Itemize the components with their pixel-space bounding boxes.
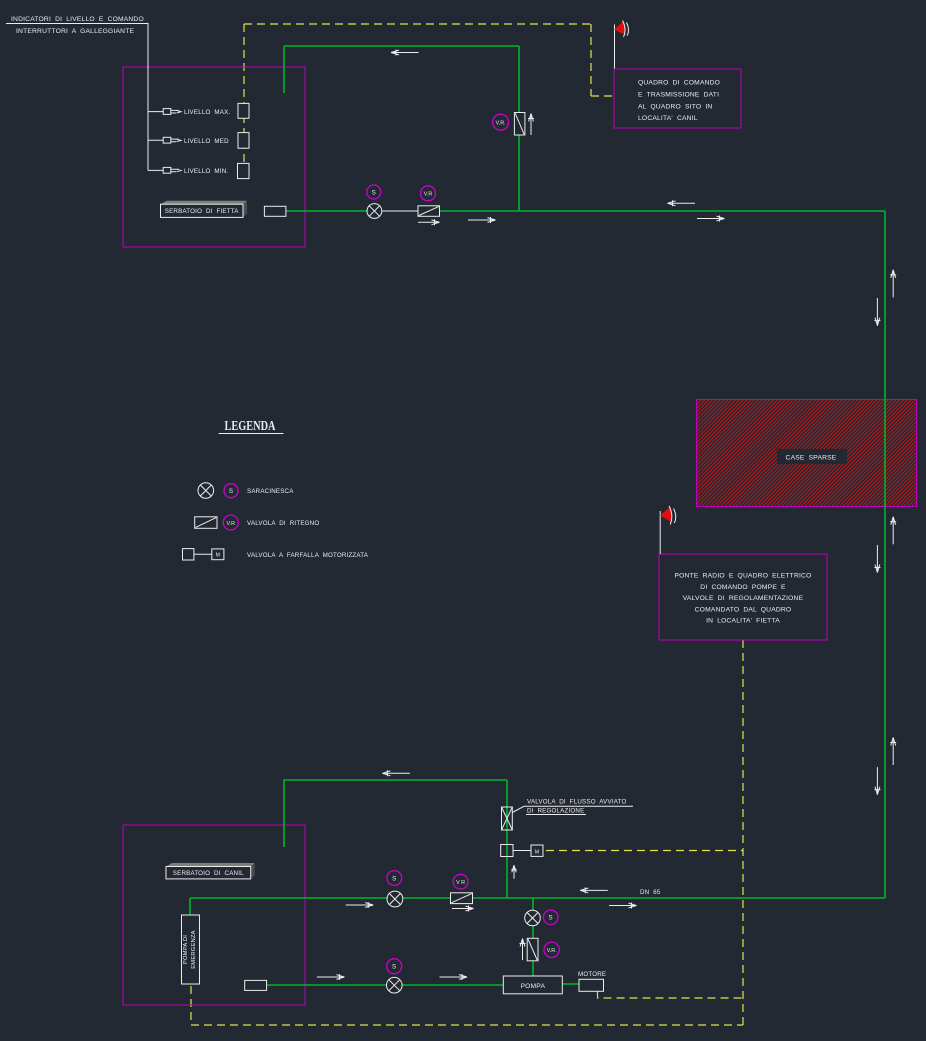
svg-text:SARACINESCA: SARACINESCA: [247, 488, 294, 495]
flow arrows on right vertical pair 1 down: [874, 298, 880, 326]
motor MOTORE box: [579, 979, 604, 991]
valve saracinesca V1 (upper main): [367, 204, 382, 219]
flow arrow up on riser below butterfly: [511, 865, 517, 879]
tag S for V2: [387, 871, 402, 886]
svg-text:POMPA DI: POMPA DI: [183, 935, 189, 964]
butterfly valve body square: [501, 845, 513, 857]
check valve V.R. VR1 (upper main): [418, 206, 440, 217]
wire: vertical dashed through level switches x=244: [243, 24, 245, 164]
flow arrow pair on upper main near right (right): [697, 216, 725, 222]
svg-text:IN LOCALITA' FIETTA: IN LOCALITA' FIETTA: [706, 617, 780, 624]
svg-text:V R: V R: [456, 880, 465, 886]
svg-text:S: S: [549, 915, 553, 922]
flow arrow right of DN65 pointing right: [609, 903, 637, 909]
float switch med symbol: [163, 137, 181, 143]
wire: dashed branch to MOTORE y=998: [598, 991, 744, 998]
pipe: canil loop top y=780: [284, 780, 507, 847]
svg-text:COMANDATO DAL QUADRO: COMANDATO DAL QUADRO: [695, 606, 792, 613]
inlet flange rect (Canil suction): [245, 980, 267, 990]
underline for line2: [526, 814, 586, 816]
svg-text:LIVELLO MIN.: LIVELLO MIN.: [184, 168, 228, 175]
flow arrow on top run y=46 pointing left: [391, 50, 419, 56]
tag V.R for VR3: [453, 874, 468, 889]
wire: dashed branch to motorized valve y=850: [546, 850, 743, 852]
label SERBATOIO DI CANIL 3D tag: [166, 863, 255, 879]
antenna A1 radiator: [615, 21, 629, 38]
valve saracinesca V2 (lower main): [387, 891, 403, 907]
pipe: main upper run y=211 (left of gate valve): [286, 210, 368, 212]
tag S for V3: [543, 910, 558, 925]
check valve VR3 (lower main): [451, 893, 473, 904]
pipe: branch to pump x=533: [532, 898, 534, 976]
tag V.R. for VR4: [544, 942, 559, 957]
svg-text:VALVOLA DI RITEGNO: VALVOLA DI RITEGNO: [247, 520, 319, 527]
float switch min symbol: [163, 167, 181, 173]
panel box: ponte radio e quadro elettrico: [659, 554, 827, 640]
svg-text:INTERRUTTORI A GALLEGGIANTE: INTERRUTTORI A GALLEGGIANTE: [16, 28, 134, 35]
pipe: tank Fietta inlet drop: [283, 46, 285, 93]
flow arrows on right vertical pair 3 up: [890, 738, 896, 766]
flow arrows on right vertical pair 2 down: [874, 545, 880, 573]
svg-text:V.R: V.R: [424, 192, 433, 198]
legend tag S: [224, 484, 238, 498]
svg-text:MOTORE: MOTORE: [578, 971, 606, 978]
svg-text:DI COMANDO POMPE E: DI COMANDO POMPE E: [700, 584, 786, 591]
valve saracinesca V4 (suction): [387, 977, 403, 993]
check valve V.R. VR2 (riser x=519): [514, 113, 525, 136]
svg-text:INDICATORI DI LIVELLO E CO: INDICATORI DI LIVELLO E COMANDO: [11, 16, 144, 23]
level sense wire: underline+drop+stubs: [6, 24, 163, 171]
pipe: riser x=519 from top run to main: [518, 46, 520, 211]
flow arrow up beside VR2: [528, 114, 534, 136]
flow arrow pair on upper main near right (left): [668, 200, 696, 206]
check valve VR4 vertical (pump branch): [527, 938, 538, 961]
svg-text:DI REGOLAZIONE: DI REGOLAZIONE: [527, 808, 584, 815]
pipe: pump to motor link: [562, 983, 580, 985]
pipe: emergency pump riser: [189, 898, 191, 915]
motor actuator M box: [531, 845, 543, 856]
svg-text:V.R.: V.R.: [496, 121, 506, 127]
svg-text:PONTE RADIO E QUADRO ELETT: PONTE RADIO E QUADRO ELETTRICO: [675, 573, 812, 580]
svg-text:M: M: [535, 849, 539, 855]
flow arrow on suction run 1: [317, 974, 345, 980]
wire: dashed drop from pompa di emergenza: [190, 986, 192, 1025]
antenna A2 radiator: [661, 506, 676, 525]
float switch max symbol: [163, 109, 181, 115]
svg-text:SERBATOIO DI CANIL: SERBATOIO DI CANIL: [173, 870, 244, 877]
svg-text:VALVOLA A FARFALLA MOTORIZZ: VALVOLA A FARFALLA MOTORIZZATA: [247, 552, 369, 559]
tank serbatoio di Fietta boundary: [123, 67, 305, 247]
flow arrow up beside VR4: [520, 939, 526, 961]
tag V.R for VR1: [421, 186, 436, 201]
svg-text:VALVOLA DI FLUSSO AVVIATO: VALVOLA DI FLUSSO AVVIATO: [527, 799, 627, 806]
svg-text:S: S: [392, 875, 396, 882]
svg-text:LIVELLO MED: LIVELLO MED: [184, 138, 229, 145]
svg-text:LIVELLO MAX.: LIVELLO MAX.: [184, 109, 230, 116]
svg-text:AL QUADRO SITO IN: AL QUADRO SITO IN: [638, 103, 712, 110]
label SERBATOIO DI FIETTA 3D tag: [161, 201, 248, 218]
legend symbol: valvola di ritegno: [195, 517, 217, 529]
svg-text:CASE SPARSE: CASE SPARSE: [786, 455, 837, 462]
svg-text:E TRASMISSIONE DATI: E TRASMISSIONE DATI: [638, 92, 719, 99]
svg-text:EMERGENZA: EMERGENZA: [191, 930, 197, 969]
pipe: lower main run y=898 (DN 65): [190, 897, 885, 899]
level contact box max: [238, 103, 249, 118]
inlet flange rect (Fietta outlet): [264, 206, 286, 216]
antenna A1 mast (top right): [614, 25, 616, 69]
flow arrow under VR3: [452, 906, 474, 912]
svg-text:SERBATOIO DI FIETTA: SERBATOIO DI FIETTA: [165, 208, 239, 215]
level contact box min: [238, 163, 250, 178]
antenna A2 mast (ponte radio): [659, 511, 661, 554]
tag S for V1: [367, 185, 381, 199]
flow arrow under VR1: [418, 219, 440, 225]
level contact box med: [238, 133, 249, 149]
svg-text:LEGENDA: LEGENDA: [225, 418, 276, 433]
svg-text:V.R.: V.R.: [547, 948, 557, 954]
valve saracinesca V3 (pump branch): [525, 910, 541, 926]
svg-text:S: S: [229, 488, 233, 495]
svg-text:LOCALITA' CANIL: LOCALITA' CANIL: [638, 115, 698, 122]
svg-text:S: S: [392, 964, 396, 971]
tag V.R. for VR2: [493, 114, 509, 130]
svg-text:V.R: V.R: [227, 521, 236, 527]
flow arrows on right vertical pair 2 up: [890, 517, 896, 545]
svg-text:M: M: [216, 553, 220, 559]
flow arrow on main right of VR1: [468, 217, 496, 223]
legend title underline: [219, 433, 284, 435]
zone: CASE SPARSE hatched area: [697, 400, 917, 507]
wire: dashed vertical x=591: [590, 24, 592, 96]
text ponte radio box: [675, 573, 812, 625]
panel box: quadro di comando (top right): [614, 69, 741, 128]
svg-text:VALVOLE DI REGOLAMENTAZIONE: VALVOLE DI REGOLAMENTAZIONE: [683, 595, 804, 602]
svg-text:DN 65: DN 65: [640, 889, 661, 896]
legend tag V.R: [223, 515, 238, 530]
pipe: regolazione riser x=507: [506, 780, 508, 898]
flow arrows on right vertical pair 3 down: [874, 767, 880, 795]
tag S for V4: [387, 959, 402, 974]
pipe: main upper run y=211 (right of check valve): [439, 210, 885, 212]
leader line for valvola di flusso label: [512, 806, 633, 812]
text quadro di comando box: [638, 80, 720, 123]
flow arrow left of DN65 pointing left: [580, 887, 608, 893]
flow arrow on suction run 2: [440, 974, 468, 980]
wire: white pipe segment between valves y=211: [381, 210, 419, 212]
wire: dashed bottom run y=1025: [191, 1024, 743, 1026]
svg-text:QUADRO DI COMANDO: QUADRO DI COMANDO: [638, 80, 720, 87]
flow arrow on canil loop top pointing left: [382, 770, 410, 776]
tank serbatoio di Canil boundary: [123, 825, 305, 1005]
legend symbol: farfalla motorizzata: [183, 549, 224, 560]
svg-text:S: S: [372, 189, 376, 196]
legend symbol: saracinesca circle-X: [198, 483, 214, 499]
wire: dashed stub into quadro box: [591, 95, 614, 97]
svg-text:POMPA: POMPA: [520, 983, 545, 990]
flow arrows on right vertical pair 1 up: [890, 270, 896, 298]
pump POMPA box: [503, 976, 562, 994]
actuator link: [513, 850, 531, 852]
valve regolazione X-body (riser x=507): [502, 807, 513, 830]
pipe: right vertical main x=885: [884, 211, 886, 898]
flow arrow on lower main left section: [346, 902, 374, 908]
pipe: bottom suction run y=985: [266, 984, 503, 986]
wire: dashed horizontal y=24: [244, 23, 591, 25]
emergency pump POMPA DI EMERGENZA: [182, 915, 200, 984]
net: control cable from ponte radio box down x=743: [742, 640, 744, 1025]
pipe: top horizontal run y=46: [284, 45, 519, 47]
